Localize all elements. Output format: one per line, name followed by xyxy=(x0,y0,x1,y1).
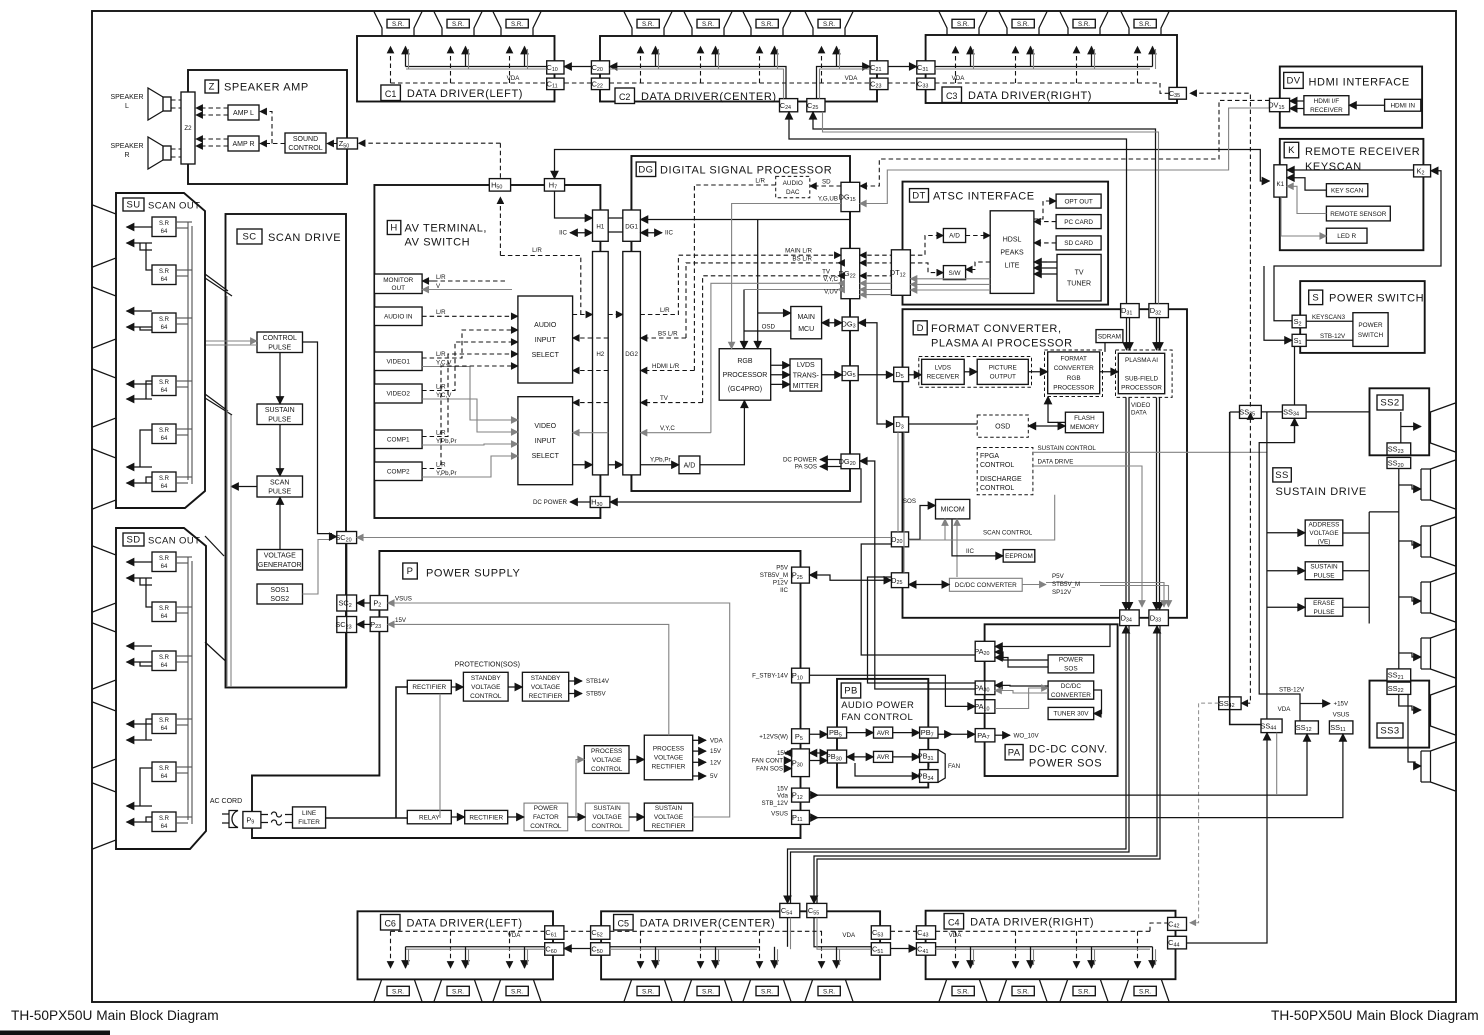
wire D31 D32 buses into PLASMA AI xyxy=(1126,318,1128,350)
wire COMP2 Y,Pb,Pr gray xyxy=(422,456,518,477)
svg-text:SOS: SOS xyxy=(1064,666,1078,673)
svg-text:SCAN OUT: SCAN OUT xyxy=(148,201,200,212)
svg-text:EEPROM: EEPROM xyxy=(1005,553,1033,560)
svg-text:S.R: S.R xyxy=(159,380,170,386)
wire VIDEO2 L/R dashed xyxy=(422,342,518,391)
connector P5 xyxy=(792,729,810,744)
wire address/sustain/erase feeds xyxy=(1266,412,1268,719)
svg-text:12V: 12V xyxy=(710,759,722,766)
wire SS44 down to C44 xyxy=(1187,733,1268,943)
wire SUSTAIN PULSE to SCAN PULSE xyxy=(279,425,281,477)
svg-text:L/R: L/R xyxy=(436,462,446,469)
svg-text:LITE: LITE xyxy=(1005,263,1020,270)
svg-text:CONVERTER: CONVERTER xyxy=(1054,365,1094,372)
svg-text:S.R: S.R xyxy=(159,428,170,434)
wire sustain pulse chain verticals xyxy=(1368,512,1370,624)
wire PB7 to PA7 xyxy=(938,733,975,735)
svg-text:L/R: L/R xyxy=(436,309,446,316)
wire SCAN CONTROL from D20 to SC20 xyxy=(357,537,892,539)
svg-text:C2: C2 xyxy=(619,92,631,102)
connector P11 xyxy=(792,810,810,824)
wire PA10 to DC/DC xyxy=(995,688,1048,709)
wire P25 to D25 xyxy=(809,575,891,580)
block AVR upper xyxy=(874,727,893,738)
svg-text:HDMI L/R: HDMI L/R xyxy=(652,363,680,370)
wire SU bus diagonals xyxy=(205,274,228,291)
block S.R 64 shift register SD4 xyxy=(152,714,176,734)
block RELAY xyxy=(407,810,451,823)
svg-text:AUDIO: AUDIO xyxy=(534,322,557,329)
wire DG20 to H30 DC POWER xyxy=(860,461,875,468)
svg-text:64: 64 xyxy=(161,325,168,331)
connector K1 xyxy=(1274,165,1287,197)
wire Z50 to SOUND CONTROL dashed xyxy=(327,143,337,145)
svg-text:SS: SS xyxy=(1275,470,1288,481)
svg-text:PULSE: PULSE xyxy=(268,489,291,496)
label C3 xyxy=(942,87,962,103)
connector SS44 xyxy=(1261,719,1282,733)
wire speaker R to Z2 dashed pair xyxy=(171,148,181,150)
svg-text:DG2: DG2 xyxy=(625,351,638,358)
wire into SC20 arrows xyxy=(329,536,337,538)
block POWER SOS xyxy=(1048,655,1094,673)
scan output connector bar L6 on left frame edge xyxy=(93,623,116,689)
panel connector funnel B2 with S.R. shift register xyxy=(434,971,482,1002)
connector SC23 xyxy=(337,617,357,633)
block FORMAT CONVERTER RGB PROCESSOR xyxy=(1048,352,1100,394)
wire SU internal bus verticals xyxy=(187,222,189,480)
svg-text:STB-12V: STB-12V xyxy=(1279,687,1305,694)
svg-text:PC CARD: PC CARD xyxy=(1064,219,1093,226)
block EEPROM xyxy=(1003,550,1035,563)
scan output connector bar L4 on left frame edge xyxy=(93,449,116,509)
svg-text:SPEAKER AMP: SPEAKER AMP xyxy=(224,82,309,94)
wire SS35 up arrow from below and to SS34 xyxy=(1261,411,1282,413)
connector C55 xyxy=(807,903,827,917)
connector SS22 xyxy=(1387,682,1411,694)
block MICOM xyxy=(936,499,970,519)
svg-text:SPEAKER: SPEAKER xyxy=(110,143,143,150)
connector S2 xyxy=(1292,315,1306,328)
svg-text:LVDS: LVDS xyxy=(935,365,951,372)
svg-text:L/R: L/R xyxy=(660,307,670,314)
block SCAN PULSE xyxy=(257,476,303,497)
wire MAIN MCU to DG3 bidirectional xyxy=(822,322,843,324)
svg-text:PROCESSOR: PROCESSOR xyxy=(1053,384,1094,391)
block STANDBY VOLTAGE RECTIFIER xyxy=(522,672,568,701)
svg-text:Y,Pb,Pr: Y,Pb,Pr xyxy=(436,470,457,477)
svg-text:K1: K1 xyxy=(1277,181,1285,188)
svg-text:TV: TV xyxy=(822,268,831,275)
connector H50 xyxy=(489,179,510,192)
svg-text:VIDEO: VIDEO xyxy=(534,423,556,430)
block K REMOTE RECEIVER KEYSCAN container xyxy=(1280,139,1424,250)
wire K1 to LED R xyxy=(1281,197,1326,236)
svg-text:S.R.: S.R. xyxy=(761,988,773,995)
svg-text:TUNER 30V: TUNER 30V xyxy=(1053,711,1089,718)
scan output connector bar L8 on left frame edge xyxy=(93,783,116,849)
wire DC/DC converter rails down to D33 xyxy=(1046,583,1164,608)
scan output connector bar L7 on left frame edge xyxy=(93,702,116,768)
connector D34 xyxy=(1120,610,1140,626)
svg-text:POWER SUPPLY: POWER SUPPLY xyxy=(426,568,520,580)
svg-text:A/D: A/D xyxy=(684,462,696,469)
svg-text:V,UV: V,UV xyxy=(824,289,839,296)
block HDSL PEAKS LITE xyxy=(990,211,1034,294)
svg-text:64: 64 xyxy=(161,484,168,490)
svg-text:GENERATOR: GENERATOR xyxy=(258,562,302,569)
svg-text:SU: SU xyxy=(127,200,141,211)
svg-text:ATSC INTERFACE: ATSC INTERFACE xyxy=(933,191,1035,203)
wire SU S.R outputs to left connector bars xyxy=(127,226,153,228)
svg-text:MITTER: MITTER xyxy=(793,383,819,390)
connector PB34 xyxy=(920,770,938,783)
svg-text:S/W: S/W xyxy=(948,270,961,277)
svg-text:S.R.: S.R. xyxy=(1139,988,1151,995)
connector C33 xyxy=(917,78,935,90)
wire C2 right solid bus from C25 xyxy=(817,67,871,99)
svg-text:FLASH: FLASH xyxy=(1074,415,1095,422)
svg-text:VOLTAGE: VOLTAGE xyxy=(471,684,500,691)
svg-text:SWITCH: SWITCH xyxy=(1358,332,1384,339)
svg-text:SD CARD: SD CARD xyxy=(1064,240,1093,247)
wire MONITOR OUT L/R dashed xyxy=(422,280,433,282)
block D FORMAT CONVERTER PLASMA AI PROCESSOR container xyxy=(903,309,1188,618)
svg-text:MAIN: MAIN xyxy=(797,314,815,321)
svg-text:S.R: S.R xyxy=(159,476,170,482)
wire SS34 to S1 feed down to SS12 xyxy=(1259,418,1300,721)
block LINE FILTER xyxy=(293,807,326,828)
block C4 DATA DRIVER(RIGHT) container xyxy=(926,911,1176,980)
wire SVC to SUSTAIN VOLTAGE RECTIFIER xyxy=(629,816,644,818)
wire SS34 to SS2 xyxy=(1306,411,1369,413)
svg-text:S.R: S.R xyxy=(159,766,170,772)
panel connector funnel B10 with S.R. shift register xyxy=(1060,971,1108,1002)
svg-text:SELECT: SELECT xyxy=(532,453,560,460)
svg-text:S.R.: S.R. xyxy=(642,21,654,28)
svg-text:RECTIFIER: RECTIFIER xyxy=(529,693,563,700)
wire DC/DC CONVERTER outputs xyxy=(1022,584,1046,586)
svg-text:OUT: OUT xyxy=(392,285,406,292)
wire LVDS RECEIVER to PICTURE OUTPUT xyxy=(964,371,977,373)
block P POWER SUPPLY container xyxy=(252,551,801,838)
block AMP R xyxy=(228,136,259,151)
svg-text:VIDEO1: VIDEO1 xyxy=(387,358,411,365)
svg-text:SOS1: SOS1 xyxy=(270,587,289,594)
wire SS2 internal to bars xyxy=(1400,412,1402,443)
wire dashed VDA channel C35 to SS35 to SS42 xyxy=(1190,93,1250,406)
wire KEY SCAN to K1 xyxy=(1287,178,1327,190)
block S.R 64 shift register SU3 xyxy=(152,313,176,333)
block PA DC-DC CONV POWER SOS container xyxy=(985,624,1118,776)
block H AV TERMINAL AV SWITCH container xyxy=(374,185,600,518)
scan output connector bar L5 on left frame edge xyxy=(93,546,116,612)
svg-text:POWER SOS: POWER SOS xyxy=(1029,758,1102,770)
connector S/W in DT xyxy=(943,266,965,280)
wire into S1 xyxy=(1264,266,1292,340)
svg-text:SUSTAIN DRIVE: SUSTAIN DRIVE xyxy=(1276,486,1367,498)
block DC/DC CONVERTER in D xyxy=(949,578,1022,591)
wire C54 C55 feeds into C5 xyxy=(787,918,789,947)
wire C5 solid bus left xyxy=(610,946,760,948)
svg-text:RGB: RGB xyxy=(1067,375,1081,382)
svg-text:BS L/R: BS L/R xyxy=(792,256,812,263)
wire SOS from D20 to MICOM xyxy=(909,506,936,540)
connector DG15 xyxy=(841,182,860,211)
wire VOLTAGE GENERATOR to SCAN PULSE xyxy=(279,497,281,550)
wire A/D to HDSL dashed xyxy=(966,235,991,237)
svg-text:VDA: VDA xyxy=(845,75,859,82)
svg-text:SUB-FIELD: SUB-FIELD xyxy=(1125,375,1159,382)
wire DC/DC to PA30 xyxy=(995,684,1048,687)
connector bar Z2 xyxy=(181,92,195,164)
svg-text:POWER SWITCH: POWER SWITCH xyxy=(1329,293,1424,305)
wire C22 to C11 dashed link xyxy=(564,82,591,84)
connector H1 xyxy=(593,210,609,241)
wire COMP1 Y,Pb,Pr gray xyxy=(422,444,518,445)
svg-text:VDA: VDA xyxy=(507,75,521,82)
svg-text:S.R.: S.R. xyxy=(957,21,969,28)
wire C24 C25 feeds down to D31 D32 xyxy=(789,112,1127,304)
connector P9 xyxy=(243,812,261,829)
connector P25 xyxy=(792,567,810,583)
svg-text:64: 64 xyxy=(161,824,168,830)
svg-text:FAN SOS: FAN SOS xyxy=(756,766,783,773)
block TUNER 30V xyxy=(1048,707,1094,719)
block SOUND CONTROL xyxy=(285,133,326,153)
svg-text:S.R.: S.R. xyxy=(452,21,464,28)
connector C53 xyxy=(871,926,890,940)
connector DT12 xyxy=(891,250,910,295)
svg-text:VDA: VDA xyxy=(952,75,966,82)
svg-text:MAIN L/R: MAIN L/R xyxy=(785,248,812,255)
wire AMP L to Z2 dashed arrows xyxy=(196,107,228,109)
svg-text:S.R.: S.R. xyxy=(702,988,714,995)
wire Y,Pb,Pr row to A/D xyxy=(573,464,593,466)
panel connector funnel B6 with S.R. shift register xyxy=(743,971,791,1002)
wire +15V stub xyxy=(1300,703,1330,705)
wire SC left vertical buses xyxy=(226,296,228,687)
block SS3 container xyxy=(1370,681,1430,748)
svg-text:PROTECTION(SOS): PROTECTION(SOS) xyxy=(455,662,520,669)
connector DG3 xyxy=(842,317,858,331)
block C5 DATA DRIVER(CENTER) container xyxy=(601,911,880,979)
block ERASE PULSE xyxy=(1305,598,1343,616)
wire TV TUNER to HDSL rows xyxy=(1034,261,1057,263)
sustain output connector bar R7 on right frame edge xyxy=(1431,742,1456,791)
wire DG5 to D5 xyxy=(858,374,894,376)
wire TV TUNER dashed corner xyxy=(1040,261,1047,263)
panel connector funnel T7 with S.R. shift register xyxy=(805,12,853,44)
svg-text:AV TERMINAL,: AV TERMINAL, xyxy=(405,223,488,235)
wire C2 left solid bus xyxy=(610,67,787,99)
wire V,UV gray row xyxy=(744,289,841,291)
dashed group LVDS RECEIVER / PICTURE OUTPUT xyxy=(919,357,1032,388)
wire RGB PROCESSOR to LVDS TRANSMITTER x3 xyxy=(771,364,790,366)
wire OSD from MAIN MCU xyxy=(744,330,791,332)
svg-text:SP12V: SP12V xyxy=(1052,589,1072,596)
wire SD right-side bus stubs xyxy=(176,556,192,558)
connector C52 xyxy=(591,926,610,940)
connector PB31 xyxy=(920,750,938,763)
svg-text:STB5V_M: STB5V_M xyxy=(760,572,788,579)
svg-text:RECTIFIER: RECTIFIER xyxy=(469,814,503,821)
svg-text:DATA DRIVER(CENTER): DATA DRIVER(CENTER) xyxy=(641,91,777,103)
connector D31 xyxy=(1121,304,1140,318)
svg-text:S.R.: S.R. xyxy=(511,21,523,28)
svg-text:LVDS: LVDS xyxy=(797,362,815,369)
svg-text:DC/DC CONVERTER: DC/DC CONVERTER xyxy=(955,582,1017,589)
connector SS11 xyxy=(1329,721,1353,734)
svg-text:RGB: RGB xyxy=(737,358,753,365)
svg-text:VIDEO: VIDEO xyxy=(1131,402,1150,409)
svg-text:CONTROL: CONTROL xyxy=(288,145,322,152)
svg-text:CONTROL: CONTROL xyxy=(592,823,624,830)
connector PB30 xyxy=(827,750,846,763)
wire PB5 to AVR to PB7 xyxy=(847,732,874,734)
wire audio dashed from DG to Z50 xyxy=(359,142,501,144)
svg-text:STB5V: STB5V xyxy=(586,691,606,698)
svg-text:PULSE: PULSE xyxy=(1314,572,1335,579)
svg-text:RECEIVER: RECEIVER xyxy=(927,374,960,381)
svg-text:S.R.: S.R. xyxy=(392,988,404,995)
svg-text:SDRAM: SDRAM xyxy=(1098,333,1121,340)
block LVDS TRANSMITTER xyxy=(790,359,822,391)
svg-text:BS L/R: BS L/R xyxy=(658,331,678,338)
block S POWER SWITCH container xyxy=(1300,281,1425,353)
wire IIC at DG1 right xyxy=(640,232,662,234)
block AMP L xyxy=(228,105,259,120)
connector SS35 xyxy=(1240,405,1262,418)
svg-text:5V: 5V xyxy=(710,773,718,780)
svg-text:P5V: P5V xyxy=(1052,573,1065,580)
svg-text:MCU: MCU xyxy=(798,326,814,333)
connector DG22 xyxy=(841,248,860,298)
wire AMP L feed dashed branch xyxy=(260,112,272,144)
svg-text:15V: 15V xyxy=(395,617,407,624)
connector SS21 xyxy=(1387,669,1411,681)
block CONTROL PULSE xyxy=(257,332,303,353)
connector SS23 xyxy=(1387,443,1411,455)
wire REMOTE SENSOR to K1 xyxy=(1287,186,1327,213)
block OPT OUT xyxy=(1056,194,1101,208)
svg-text:64: 64 xyxy=(161,774,168,780)
wire STB14V STB5V outputs xyxy=(569,680,582,682)
svg-text:TV: TV xyxy=(660,395,669,402)
wire P2 to SC2 xyxy=(357,602,371,604)
svg-text:64: 64 xyxy=(161,388,168,394)
connector C43 xyxy=(916,926,935,940)
label C2 xyxy=(615,88,635,104)
wire MICOM bottom feeds xyxy=(944,519,946,540)
dashed group FORMAT CONVERTER xyxy=(1045,350,1103,397)
svg-text:P12V: P12V xyxy=(773,580,789,587)
svg-text:DATA DRIVER(LEFT): DATA DRIVER(LEFT) xyxy=(407,88,523,100)
svg-text:PROCESSOR: PROCESSOR xyxy=(723,372,768,379)
wire TV dashed row xyxy=(640,402,702,404)
svg-text:DC POWER: DC POWER xyxy=(533,499,568,506)
svg-text:STB-12V: STB-12V xyxy=(1320,333,1346,340)
block S.R 64 shift register SD2 xyxy=(152,602,176,622)
svg-text:VDA: VDA xyxy=(1278,706,1292,713)
svg-text:TH-50PX50U Main Block Diagram: TH-50PX50U Main Block Diagram xyxy=(1271,1008,1479,1023)
block PROCESS VOLTAGE CONTROL xyxy=(584,746,629,774)
wire VIDEO1 Y,C,V gray xyxy=(422,367,518,421)
svg-text:Y,Pb,Pr: Y,Pb,Pr xyxy=(650,457,671,464)
wire D3 down to MICOM and D20 gray xyxy=(897,432,899,532)
wire SD internal bus verticals xyxy=(187,557,189,820)
svg-text:SS2: SS2 xyxy=(1380,398,1399,409)
connector SC20 xyxy=(337,532,357,544)
svg-text:OSD: OSD xyxy=(995,424,1010,431)
connector SS20 xyxy=(1387,457,1411,468)
connector PB7 xyxy=(920,727,938,738)
wire SU bus to CONTROL PULSE xyxy=(206,340,257,342)
wire P12 to SS12 xyxy=(809,734,1307,795)
svg-text:S.R.: S.R. xyxy=(1078,21,1090,28)
wire RELAY to RECTIFIER xyxy=(451,816,464,818)
connector S1 xyxy=(1292,334,1306,346)
sustain output connector bar R4 on right frame edge xyxy=(1431,573,1456,622)
wire SS22 to bottom bars xyxy=(1399,694,1421,710)
wire receiver to DV15 xyxy=(1290,100,1304,102)
svg-text:DV: DV xyxy=(1286,76,1300,87)
wire SC20 chain down to SC2 xyxy=(346,544,348,688)
svg-text:Vda: Vda xyxy=(777,793,789,800)
svg-text:PROCESSOR: PROCESSOR xyxy=(1121,385,1162,392)
dashed group FPGA CONTROL DISCHARGE CONTROL xyxy=(977,448,1033,495)
wire IIC at H1 left xyxy=(570,232,593,234)
svg-text:S.R: S.R xyxy=(159,556,170,562)
svg-text:64: 64 xyxy=(161,229,168,235)
svg-text:PROCESS: PROCESS xyxy=(653,746,684,753)
wire V,UV vertical to RGB top xyxy=(743,290,745,349)
wire SD dashed from DV15 to DG15 xyxy=(860,100,1270,186)
wire VSUS to P2 xyxy=(388,603,730,817)
svg-text:AUDIO: AUDIO xyxy=(783,180,803,187)
connector A/D in DT xyxy=(943,229,965,243)
wire P30 input arrows xyxy=(785,752,792,754)
connector C35 xyxy=(1169,87,1186,99)
svg-text:STB5V_M: STB5V_M xyxy=(1052,581,1080,588)
sustain output connector bar R2 on right frame edge xyxy=(1431,460,1456,509)
svg-text:VDA: VDA xyxy=(842,932,856,939)
panel connector funnel B4 with S.R. shift register xyxy=(624,971,672,1002)
svg-text:VSUS: VSUS xyxy=(771,811,788,818)
wire SCAN PULSE output to left buses xyxy=(231,486,257,488)
wire COMP2 L/R dashed xyxy=(422,366,518,469)
wire PA7 WO_10V xyxy=(995,734,1010,736)
svg-text:F_STBY-14V: F_STBY-14V xyxy=(752,673,789,680)
wire PICTURE OUTPUT to FORMAT CONVERTER xyxy=(1028,371,1047,373)
connector Z50 xyxy=(337,138,358,149)
svg-text:15V: 15V xyxy=(777,786,789,793)
black corner bar xyxy=(0,1031,110,1035)
svg-text:POWER: POWER xyxy=(1059,657,1084,664)
label SS SUSTAIN DRIVE xyxy=(1273,468,1292,482)
connector C31 xyxy=(917,61,935,74)
wire DG22 to DT12 rows xyxy=(860,254,892,256)
panel connector funnel T2 with S.R. shift register xyxy=(434,12,482,44)
wire FLASH MEMORY to FORMAT CONVERTER xyxy=(1048,397,1065,423)
wire RECTIFIER to POWER FACTOR CONTROL xyxy=(508,816,524,818)
wire D5 to LVDS RECEIVER xyxy=(909,374,922,376)
svg-text:FAN: FAN xyxy=(948,763,960,770)
wire C4 dashed bus xyxy=(936,930,1150,932)
wire L/R dashed row xyxy=(573,314,593,316)
block HDMI I/F RECEIVER xyxy=(1304,96,1349,115)
block C1 DATA DRIVER(LEFT) container xyxy=(357,36,555,102)
